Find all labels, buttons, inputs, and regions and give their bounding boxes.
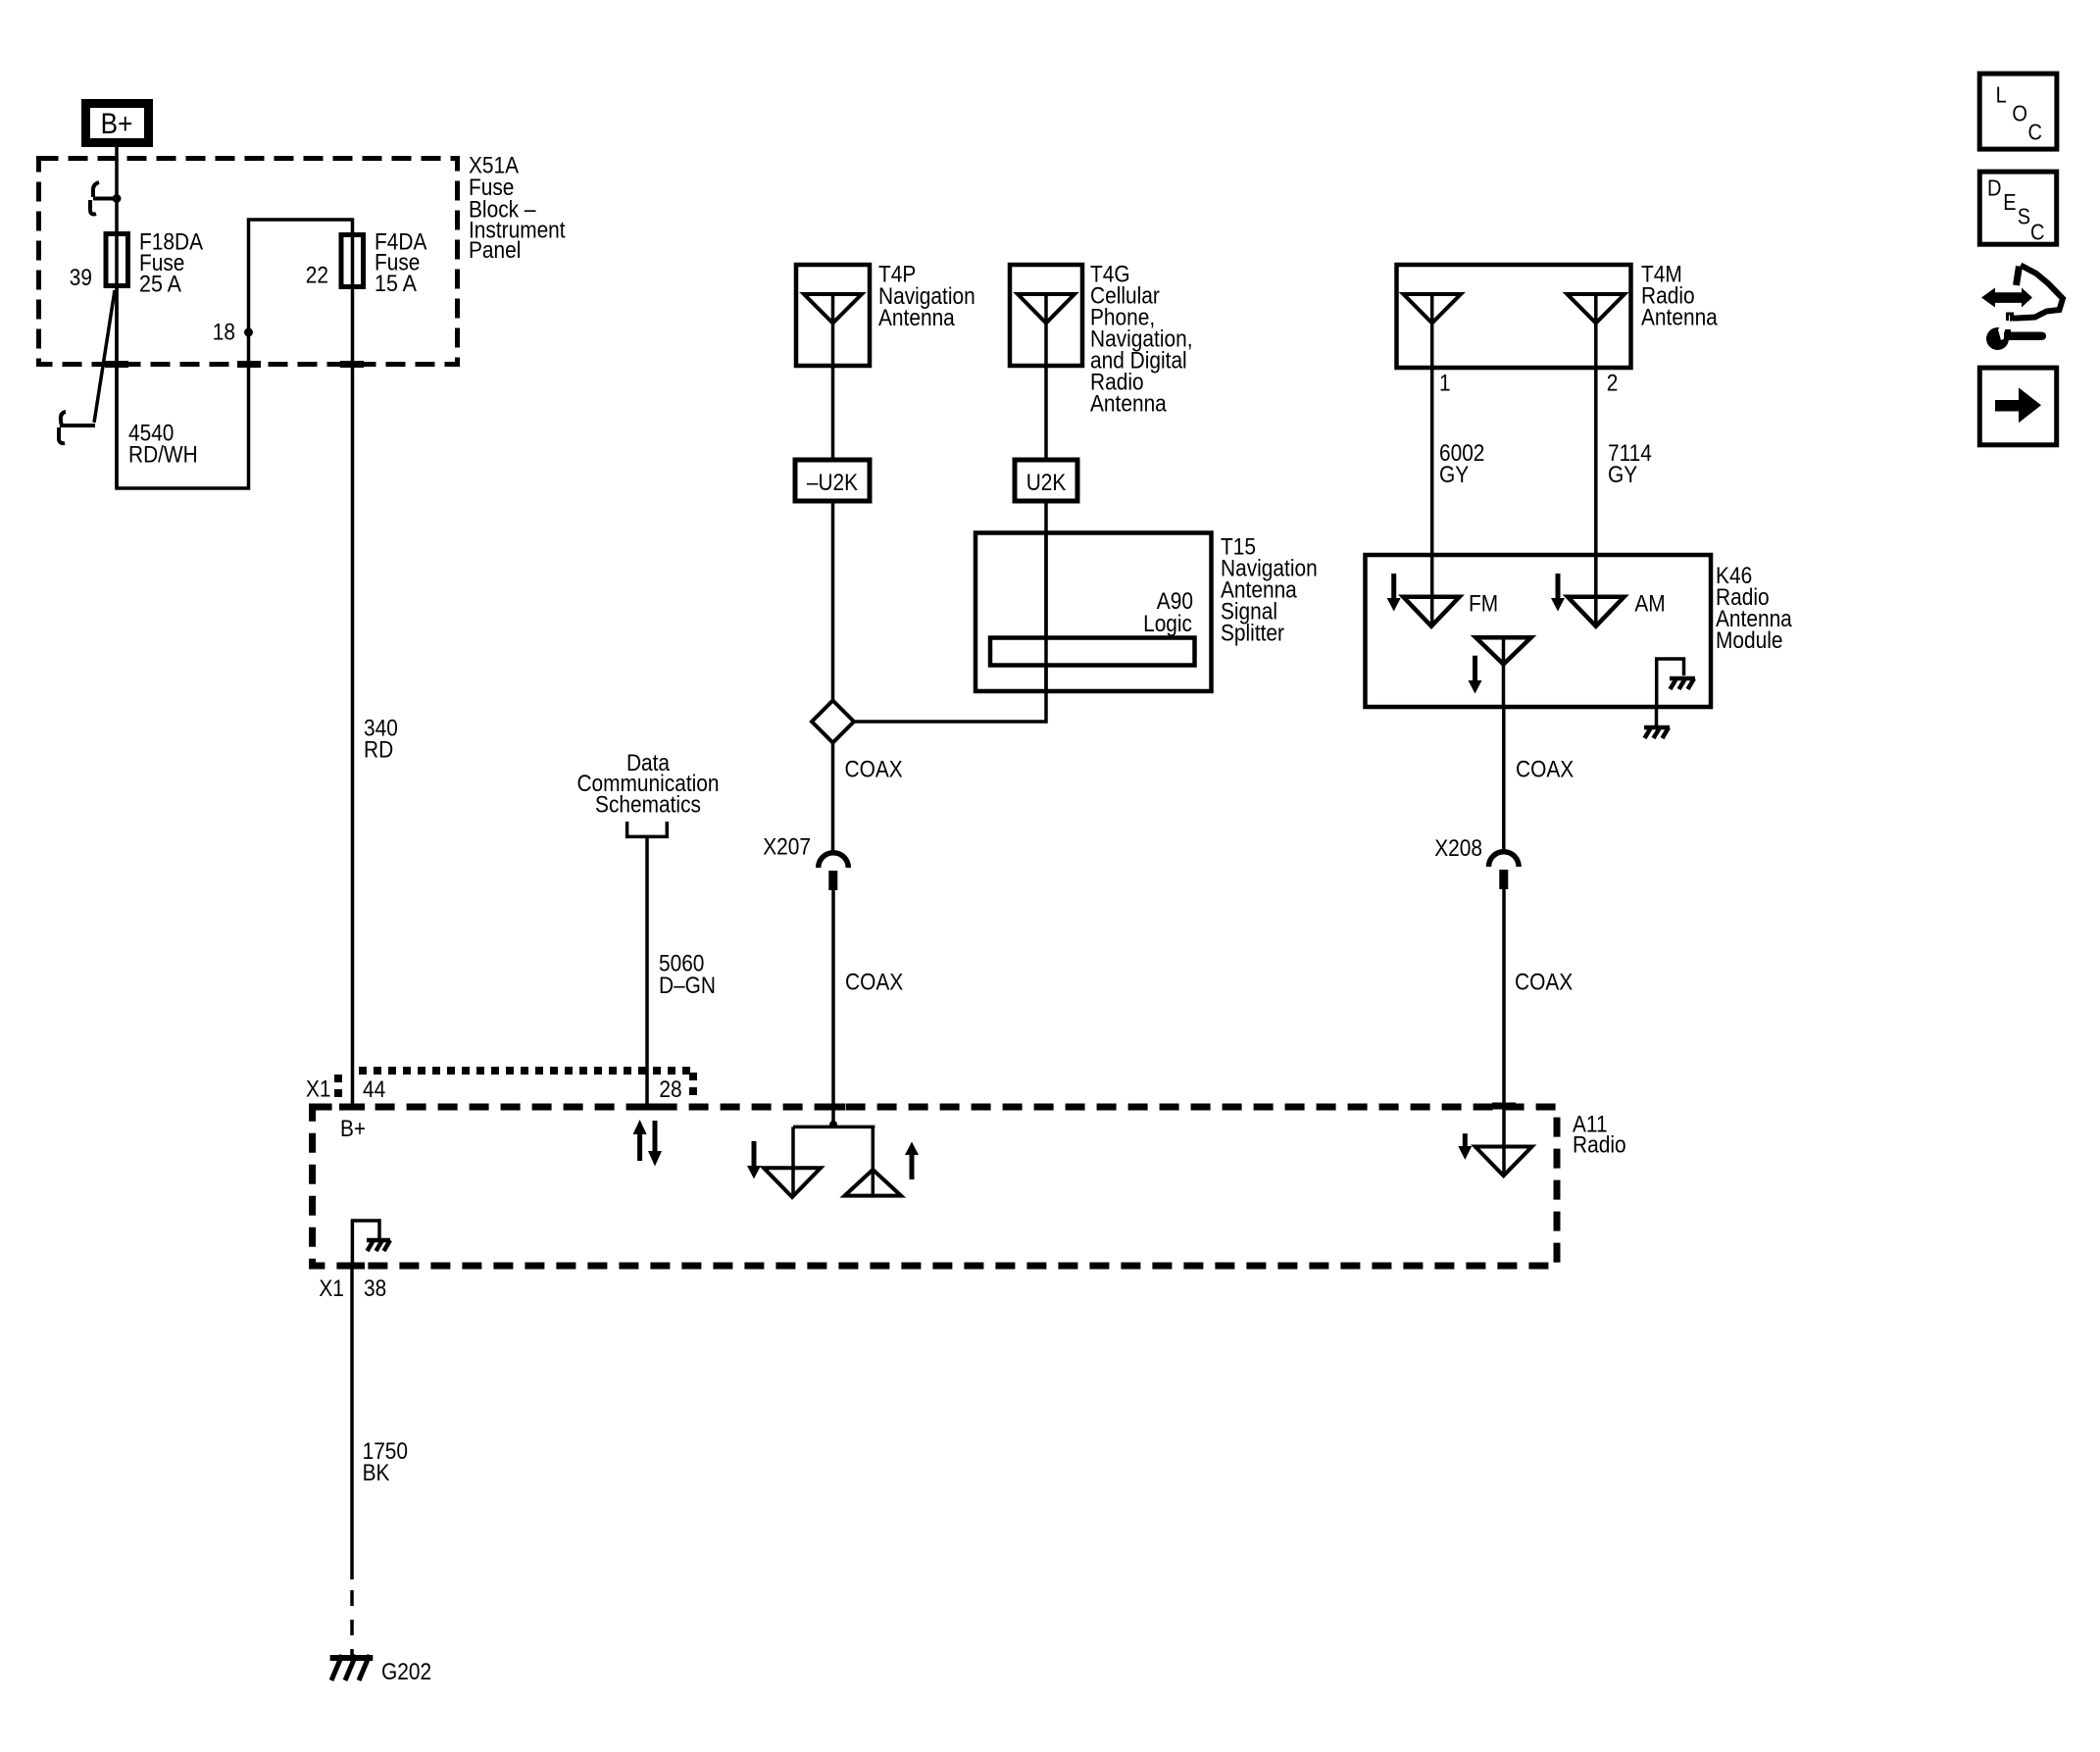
svg-text:Antenna: Antenna xyxy=(878,305,955,331)
svg-text:18: 18 xyxy=(213,320,235,346)
svg-text:38: 38 xyxy=(364,1276,386,1302)
label T15 Navigation Antenna Signal Splitter xyxy=(1221,534,1318,647)
svg-text:Module: Module xyxy=(1716,627,1783,654)
ground below K46 xyxy=(1644,707,1670,738)
svg-text:O: O xyxy=(2012,100,2027,125)
svg-text:39: 39 xyxy=(70,265,92,291)
svg-text:Panel: Panel xyxy=(469,237,521,264)
label T4P Navigation Antenna xyxy=(878,262,975,331)
wire 7114 GY xyxy=(1594,368,1598,626)
node 18 junction xyxy=(244,328,253,337)
A11 internal radio antenna input xyxy=(1475,1147,1532,1176)
wire 340 RD from fuse F4DA to X1 pin 44 xyxy=(351,286,355,1107)
A11 internal signal out symbol xyxy=(845,1126,902,1195)
svg-text:1: 1 xyxy=(1439,371,1451,397)
connector X207 xyxy=(763,834,848,890)
label F18DA Fuse 25 A xyxy=(139,229,203,298)
RPO code box U2K xyxy=(1015,460,1077,501)
svg-text:X208: X208 xyxy=(1434,835,1482,862)
wire through T15 splitter xyxy=(1044,533,1048,692)
wire 1750 BK xyxy=(350,1266,354,1579)
A90 logic bar xyxy=(990,638,1195,666)
svg-text:RD: RD xyxy=(364,737,393,764)
svg-text:COAX: COAX xyxy=(1515,970,1573,996)
svg-text:28: 28 xyxy=(659,1076,681,1103)
svg-text:Antenna: Antenna xyxy=(1641,305,1718,331)
X208 entry tick at A11 xyxy=(1492,1103,1516,1110)
serial data arrows below pin 28 xyxy=(633,1120,662,1167)
arrow in (left) xyxy=(747,1141,761,1179)
radio A11 dashed box xyxy=(313,1107,1557,1266)
X1 pin 38 tick xyxy=(339,1263,365,1270)
svg-text:GY: GY xyxy=(1439,462,1469,488)
svg-text:S: S xyxy=(2018,203,2030,228)
svg-text:X1: X1 xyxy=(319,1276,344,1302)
svg-text:RD/WH: RD/WH xyxy=(128,442,198,469)
svg-text:Schematics: Schematics xyxy=(595,791,701,818)
connector X1 dotted strip xyxy=(338,1071,693,1104)
svg-text:COAX: COAX xyxy=(845,757,903,783)
wire 4540 from fuse F18DA to node 18 and fuse F4DA xyxy=(117,220,353,488)
label T4M Radio Antenna xyxy=(1641,262,1718,331)
label X51A Fuse Block - Instrument Panel xyxy=(469,152,566,263)
antenna T4M box xyxy=(1397,265,1631,368)
svg-text:BK: BK xyxy=(363,1460,390,1486)
RPO code box -U2K xyxy=(795,460,870,501)
icon service/repair (double arrow, outline, wrench) xyxy=(1981,266,2063,351)
icon DESC box xyxy=(1979,172,2056,245)
wire -U2K to diamond xyxy=(831,501,835,700)
splitter T15 box xyxy=(975,533,1212,692)
svg-text:GY: GY xyxy=(1608,462,1637,488)
antenna T4G box xyxy=(1010,265,1082,366)
svg-text:X1: X1 xyxy=(306,1076,331,1103)
connector X208 xyxy=(1434,835,1519,889)
COAX entry tick at A11 xyxy=(822,1104,845,1111)
tick bars at fuse block dashed boundary xyxy=(105,361,128,368)
svg-text:D: D xyxy=(1987,175,2002,201)
X1 pin 44 tick xyxy=(339,1104,365,1111)
svg-text:G202: G202 xyxy=(381,1659,431,1685)
svg-text:44: 44 xyxy=(363,1076,385,1103)
fuse block X51A dashed box xyxy=(39,159,458,365)
svg-text:–U2K: –U2K xyxy=(807,470,858,496)
clip terminal lower xyxy=(59,412,95,443)
radio antenna module K46 box xyxy=(1366,555,1712,707)
wire X207 to radio A11 xyxy=(831,890,835,1125)
wire X208 to radio A11 xyxy=(1502,889,1506,1176)
label A90 Logic xyxy=(1143,588,1193,637)
svg-text:C: C xyxy=(2030,220,2045,245)
ground symbol inside A11 at pin 38 xyxy=(352,1221,390,1266)
svg-text:2: 2 xyxy=(1607,371,1619,397)
dashed wire to G202 xyxy=(350,1590,354,1657)
svg-text:C: C xyxy=(2028,120,2043,145)
wire B+ down through fuse F18DA xyxy=(106,147,128,488)
AM antenna symbol xyxy=(1568,597,1625,626)
arrow into FM xyxy=(1387,574,1401,612)
ref label Data Communication Schematics xyxy=(576,750,719,818)
wire U2K into T15 splitter xyxy=(1044,501,1048,691)
wire 5060 D-GN xyxy=(645,836,649,1107)
icon forward arrow box xyxy=(1979,368,2056,445)
A11 internal nav antenna input xyxy=(764,1121,875,1197)
label F4DA Fuse 15 A xyxy=(375,229,426,297)
wire T4G to U2K xyxy=(1044,366,1048,460)
antenna T4P box xyxy=(796,265,870,366)
svg-text:E: E xyxy=(2003,189,2016,215)
svg-text:AM: AM xyxy=(1634,591,1665,618)
svg-text:X207: X207 xyxy=(763,834,811,861)
junction at clip bar and B+ wire xyxy=(113,194,122,203)
svg-text:Radio: Radio xyxy=(1573,1132,1626,1159)
wire diamond to X207 xyxy=(831,743,835,853)
ground inside K46 xyxy=(1657,659,1695,707)
fuse F4DA xyxy=(341,235,364,287)
svg-text:B+: B+ xyxy=(101,108,133,140)
svg-text:COAX: COAX xyxy=(845,970,903,996)
combined output antenna symbol in K46 xyxy=(1475,637,1530,707)
svg-text:22: 22 xyxy=(306,263,328,289)
svg-text:L: L xyxy=(1996,82,2007,108)
arrow out of module xyxy=(1469,656,1482,694)
wire K46 to X208 xyxy=(1502,707,1506,853)
label T4G Cellular Phone, Navigation, and Digital Radio Antenna xyxy=(1090,262,1193,418)
svg-text:Logic: Logic xyxy=(1143,611,1192,637)
wire diamond to T15 splitter xyxy=(854,691,1046,722)
label K46 Radio Antenna Module xyxy=(1716,563,1792,654)
svg-text:FM: FM xyxy=(1469,591,1498,618)
label A11 Radio xyxy=(1573,1111,1626,1158)
arrow into AM xyxy=(1551,574,1565,612)
diamond junction xyxy=(812,701,854,743)
svg-text:15 A: 15 A xyxy=(375,271,417,297)
icon LOC box xyxy=(1979,74,2057,149)
X1 pin 28 tick xyxy=(633,1104,661,1111)
power symbol B+ xyxy=(81,99,153,147)
diagonal lead to lower clip xyxy=(94,290,115,423)
clip terminal at F18DA input xyxy=(90,182,120,215)
wire T4P to -U2K xyxy=(831,366,835,460)
bracket under Data Communication Schematics xyxy=(627,822,668,836)
arrow out (right) xyxy=(905,1142,919,1180)
arrow in (radio) xyxy=(1458,1133,1472,1160)
svg-text:B+: B+ xyxy=(340,1116,366,1142)
svg-text:Splitter: Splitter xyxy=(1221,621,1284,647)
svg-text:D–GN: D–GN xyxy=(659,973,716,999)
svg-text:COAX: COAX xyxy=(1516,757,1574,783)
FM antenna symbol xyxy=(1403,597,1459,626)
wire 6002 GY xyxy=(1430,368,1434,626)
ground G202 xyxy=(330,1655,374,1680)
svg-text:U2K: U2K xyxy=(1026,470,1067,496)
label wire 4540 RD/WH xyxy=(128,421,198,469)
svg-text:Antenna: Antenna xyxy=(1090,391,1167,418)
label wire 340 RD xyxy=(364,716,398,764)
svg-text:25 A: 25 A xyxy=(139,272,181,298)
